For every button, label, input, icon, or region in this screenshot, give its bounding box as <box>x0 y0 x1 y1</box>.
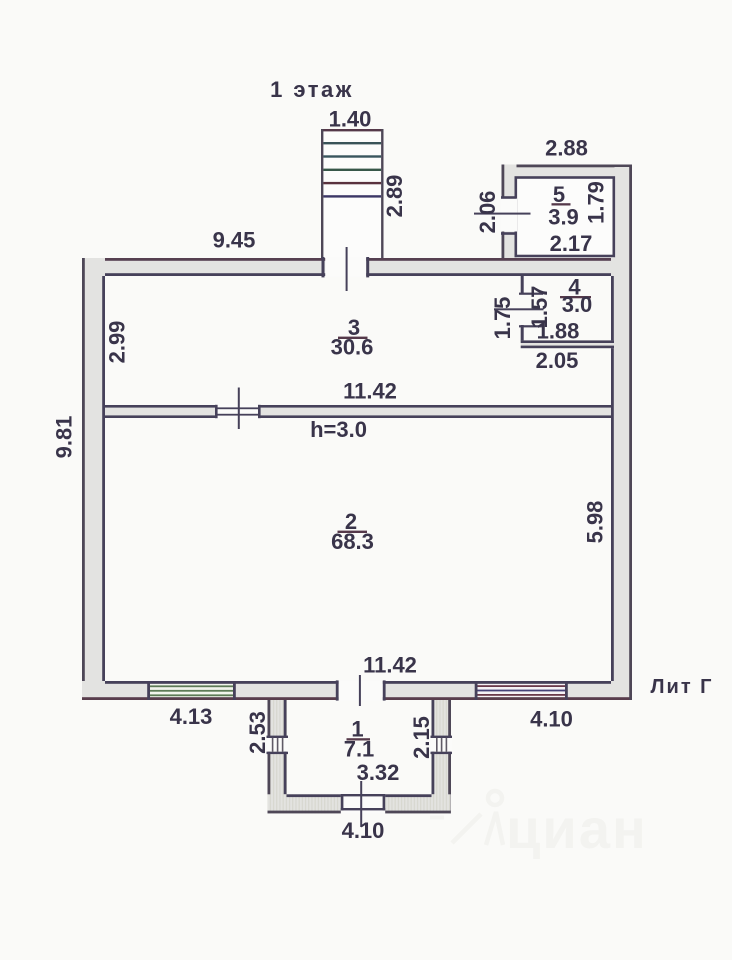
staircase outline <box>321 129 384 258</box>
room 4 door jamb ticks (1.57 dimension) <box>519 293 543 328</box>
svg-text:циан: циан <box>506 797 648 860</box>
svg-text:2.99: 2.99 <box>105 321 130 364</box>
porch bottom door <box>341 781 385 827</box>
dimension line 2.06 <box>474 213 531 215</box>
svg-text:1.79: 1.79 <box>584 181 609 224</box>
svg-text:3.9: 3.9 <box>548 205 579 230</box>
main building bottom wall <box>82 681 632 700</box>
svg-text:3.32: 3.32 <box>357 760 400 785</box>
svg-text:3.0: 3.0 <box>562 292 593 317</box>
svg-text:9.45: 9.45 <box>213 228 256 253</box>
porch right wall <box>432 700 452 813</box>
porch left door <box>267 736 289 755</box>
svg-text:2.53: 2.53 <box>245 711 270 754</box>
svg-text:9.81: 9.81 <box>52 416 77 459</box>
door opening from room 2 to porch <box>336 675 386 706</box>
door opening in partition <box>215 388 261 430</box>
window in bottom wall right (4.10) <box>475 681 568 700</box>
svg-text:1.57: 1.57 <box>527 286 552 329</box>
svg-text:68.3: 68.3 <box>331 529 374 554</box>
svg-text:Лит Г: Лит Г <box>650 676 713 698</box>
svg-text:4.10: 4.10 <box>342 818 385 843</box>
watermark house icon <box>452 791 503 845</box>
watermark dash <box>430 816 444 820</box>
svg-text:11.42: 11.42 <box>343 379 397 404</box>
dimension line 1.75 <box>494 308 544 310</box>
svg-text:5.98: 5.98 <box>583 501 608 544</box>
svg-text:11.42: 11.42 <box>363 653 417 678</box>
svg-text:1.40: 1.40 <box>329 107 372 132</box>
room 4 left wall <box>521 275 524 342</box>
svg-text:7.1: 7.1 <box>344 737 375 762</box>
svg-text:1.75: 1.75 <box>490 297 515 340</box>
svg-text:2.89: 2.89 <box>382 175 407 218</box>
porch left wall <box>268 700 288 813</box>
svg-text:4.13: 4.13 <box>170 704 213 729</box>
annex room 5 enclosure walls <box>502 165 633 701</box>
porch bottom wall <box>268 794 451 813</box>
svg-text:2.17: 2.17 <box>550 231 593 256</box>
svg-text:4.10: 4.10 <box>530 707 573 732</box>
main building top wall <box>82 258 632 276</box>
door opening in room 5 left wall <box>501 196 518 235</box>
svg-text:h=3.0: h=3.0 <box>310 417 367 442</box>
svg-text:30.6: 30.6 <box>331 335 374 360</box>
partition wall between room 3 and room 2 <box>105 405 611 418</box>
svg-text:2.88: 2.88 <box>545 136 588 161</box>
main building left wall <box>82 258 105 700</box>
svg-text:2.05: 2.05 <box>536 348 579 373</box>
window in bottom wall left (4.13) <box>147 681 236 700</box>
porch right window <box>431 736 453 755</box>
svg-text:1 этаж: 1 этаж <box>270 77 354 102</box>
door opening from stairs into room 3 <box>322 247 370 291</box>
stair treads <box>323 142 381 198</box>
svg-text:2.06: 2.06 <box>475 191 500 234</box>
main building right wall <box>611 258 632 700</box>
room 5 inner border <box>516 178 614 257</box>
svg-text:2.15: 2.15 <box>409 716 434 759</box>
room 4 bottom wall <box>521 340 614 348</box>
